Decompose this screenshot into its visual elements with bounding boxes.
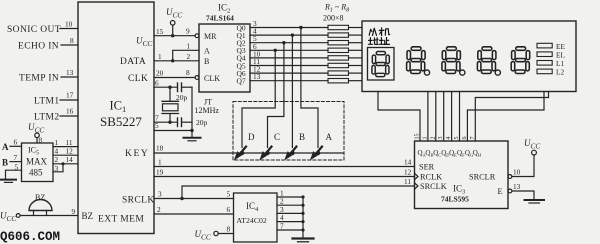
svg-text:18: 18 xyxy=(156,144,164,153)
svg-text:2: 2 xyxy=(157,205,161,214)
svg-text:Q7: Q7 xyxy=(237,77,246,86)
svg-text:12: 12 xyxy=(404,168,412,177)
wire DATA to IC2 A and B xyxy=(154,42,199,63)
IC U1 main controller IC1 SB5227 xyxy=(78,2,154,234)
svg-text:10: 10 xyxy=(65,20,73,29)
svg-text:9: 9 xyxy=(72,207,76,216)
digit 3 xyxy=(477,47,496,74)
svg-text:L2: L2 xyxy=(556,68,564,77)
wire display to IC3 pin2 xyxy=(435,92,437,142)
power Vcc for IC3 xyxy=(524,138,540,155)
pin label A pin 6 of MAX485 xyxy=(2,138,18,153)
svg-text:5: 5 xyxy=(454,137,460,140)
svg-text:UCC: UCC xyxy=(136,36,152,49)
transceiver IC5 MAX485 xyxy=(22,143,54,182)
wire display to IC3 pin15 xyxy=(378,92,420,142)
svg-text:19: 19 xyxy=(156,168,164,177)
wire capacitors common to ground with IC1 pin5 xyxy=(154,87,194,137)
svg-text:5: 5 xyxy=(155,121,159,130)
key C xyxy=(261,132,281,159)
svg-text:KEY: KEY xyxy=(125,149,149,159)
svg-text:IC4: IC4 xyxy=(246,201,259,213)
svg-text:A: A xyxy=(204,47,210,56)
eeprom IC4 AT24C02 xyxy=(234,193,278,242)
IC3 output labels QA-QH xyxy=(418,149,482,158)
buzzer BZ xyxy=(29,193,52,216)
svg-text:UCC: UCC xyxy=(195,229,211,242)
power Vcc for MAX485 xyxy=(28,122,44,145)
wire ECHO IN xyxy=(61,44,78,46)
wire Q0 branch to key A xyxy=(299,26,318,148)
decimal point 2 xyxy=(460,70,465,75)
svg-text:A: A xyxy=(2,142,9,152)
svg-text:20p: 20p xyxy=(196,118,208,127)
svg-text:2: 2 xyxy=(430,137,436,140)
pin label SRCLK pin 11 with clock wedge xyxy=(404,177,447,191)
wire IC4 pin2 to ground bus xyxy=(277,197,305,207)
pin label SONIC OUT pin 10 xyxy=(7,20,73,36)
indicator EE xyxy=(537,42,565,51)
display module box xyxy=(362,21,576,92)
IC3 top pin numbers 15 1 2 3 4 5 6 7 xyxy=(415,134,476,140)
pin label B pin 7 of MAX485 xyxy=(2,153,18,168)
svg-text:LTM1: LTM1 xyxy=(34,97,60,107)
pin label KEY pin 18 inside IC1 xyxy=(125,144,164,160)
shift register IC2 74LS164 xyxy=(195,3,250,93)
wire IC1 pin15 to IC2 MR pin 9 xyxy=(154,27,195,38)
wire IC1 pin1 to IC3 SER xyxy=(154,158,415,167)
svg-text:CLK: CLK xyxy=(128,74,148,84)
shift register IC3 74LS595 xyxy=(415,141,509,209)
digit 1 xyxy=(407,47,426,74)
svg-text:6: 6 xyxy=(14,138,18,147)
pin label SER pin 14 xyxy=(404,158,435,172)
svg-text:QC: QC xyxy=(433,149,441,158)
indicator EL xyxy=(537,50,565,59)
wire B to MAX485 xyxy=(10,161,22,163)
svg-text:7: 7 xyxy=(14,153,18,162)
svg-text:1: 1 xyxy=(158,158,162,167)
indicator L2 xyxy=(537,68,564,77)
decimal point 3 xyxy=(495,70,500,75)
svg-text:4: 4 xyxy=(446,137,452,140)
address digit box xyxy=(368,48,395,81)
svg-text:E: E xyxy=(498,187,503,196)
resistor array R1-R8 label xyxy=(323,3,349,23)
resistor R8 xyxy=(328,79,349,83)
svg-text:ECHO IN: ECHO IN xyxy=(18,42,59,52)
capacitor 20p lower xyxy=(178,118,208,127)
power Vcc above MR xyxy=(166,7,182,36)
svg-text:20: 20 xyxy=(156,69,164,78)
pin label TEMP IN pin 13 xyxy=(19,68,74,84)
wire LTM1 xyxy=(60,99,78,101)
svg-text:SB5227: SB5227 xyxy=(100,114,142,129)
address digit 8 xyxy=(372,51,389,76)
svg-text:485: 485 xyxy=(29,168,43,178)
ground IC4 xyxy=(293,239,314,242)
svg-text:7: 7 xyxy=(470,137,476,140)
svg-text:74LS595: 74LS595 xyxy=(441,195,469,204)
key D xyxy=(235,132,255,159)
svg-text:16: 16 xyxy=(66,107,74,116)
wire display to IC3 pin4 xyxy=(451,92,453,142)
svg-text:IC5: IC5 xyxy=(28,146,39,157)
svg-text:13: 13 xyxy=(253,72,261,81)
svg-text:D: D xyxy=(248,132,255,142)
svg-text:CLK: CLK xyxy=(204,74,220,83)
svg-text:8: 8 xyxy=(186,68,190,77)
svg-text:9: 9 xyxy=(186,27,190,36)
svg-text:SRCLK: SRCLK xyxy=(420,182,447,191)
wire MAX485 pin2 RE to IC1 pin 14 xyxy=(53,155,78,164)
svg-text:IC1: IC1 xyxy=(110,99,127,115)
label CongJi (slave) hand-drawn xyxy=(369,28,390,36)
svg-text:RCLK: RCLK xyxy=(420,173,442,182)
wire buzzer to IC1 pin 9 BZ xyxy=(20,207,78,216)
pin label SRCLK pin 3 inside IC1 xyxy=(122,190,162,206)
svg-text:UCC: UCC xyxy=(0,211,16,224)
svg-text:SRCLR: SRCLR xyxy=(469,173,496,182)
svg-text:DATA: DATA xyxy=(120,57,146,67)
crystal JT 12MHz xyxy=(162,87,219,122)
pin label LTM1 pin 17 xyxy=(34,91,74,107)
svg-text:R1 ~ R8: R1 ~ R8 xyxy=(324,3,349,14)
wire KEY line xyxy=(154,152,344,154)
wire LTM2 xyxy=(60,115,78,117)
svg-text:8: 8 xyxy=(70,36,74,45)
wire IC4 pin1 to ground bus xyxy=(277,189,305,199)
svg-text:7: 7 xyxy=(280,222,284,231)
wire IC1 pin6 to crystal xyxy=(154,79,177,89)
svg-text:B: B xyxy=(204,57,209,66)
svg-text:1: 1 xyxy=(158,52,162,61)
ground bus vertical IC4 xyxy=(302,197,304,238)
svg-text:15: 15 xyxy=(156,27,164,36)
wire SRCLK to IC4 pin5 and branch to IC3 SRCLK xyxy=(154,186,415,200)
svg-text:C: C xyxy=(274,132,280,142)
svg-text:74LS164: 74LS164 xyxy=(206,14,234,23)
wire SONIC OUT xyxy=(60,28,78,30)
key B xyxy=(285,132,305,159)
svg-text:1: 1 xyxy=(187,42,191,51)
pin label ECHO IN pin 8 xyxy=(18,36,74,52)
wire Q3 branch to key D xyxy=(242,49,277,148)
indicator L1 xyxy=(537,59,564,68)
wire Q3 pin6 to R4 xyxy=(250,42,362,51)
digit 4 xyxy=(511,47,530,74)
wire display to IC3 pin1 xyxy=(427,92,429,142)
svg-text:MAX: MAX xyxy=(26,157,48,167)
wire display to IC3 pin6 xyxy=(467,92,544,142)
svg-text:3: 3 xyxy=(158,190,162,199)
svg-text:15: 15 xyxy=(415,134,421,140)
wire Q1 pin4 to R2 xyxy=(250,27,362,36)
svg-text:A: A xyxy=(326,132,333,142)
wire Q7 pin13 to R8 xyxy=(250,72,362,81)
label DiZhi (address) hand-drawn xyxy=(368,38,389,45)
svg-text:LTM2: LTM2 xyxy=(34,113,60,123)
resistor R6 xyxy=(328,63,349,67)
svg-text:5: 5 xyxy=(227,190,231,199)
ground crystal xyxy=(184,138,201,141)
wire CLK to IC2 CLK pin 8 xyxy=(154,68,195,78)
svg-text:QB: QB xyxy=(425,149,433,158)
resistor R3 xyxy=(328,41,349,45)
power Vcc for IC4 pin 8 xyxy=(195,225,234,242)
power Vcc for buzzer xyxy=(0,211,20,224)
wire IC1 pin7 to crystal xyxy=(154,114,177,124)
pin label E pin 13 to ground xyxy=(498,182,535,200)
svg-text:QF: QF xyxy=(457,149,465,158)
wire EXT MEM to IC4 pin6 xyxy=(154,213,234,215)
svg-text:QE: QE xyxy=(449,149,457,158)
resistor R2 xyxy=(328,33,349,37)
svg-text:13: 13 xyxy=(66,68,74,77)
wire Q2 branch to key C xyxy=(268,41,286,148)
wire Q5 pin11 to R6 xyxy=(250,57,362,66)
resistor R1 xyxy=(328,25,349,29)
svg-text:8: 8 xyxy=(227,225,231,234)
svg-text:TEMP IN: TEMP IN xyxy=(19,74,59,84)
svg-text:BZ: BZ xyxy=(82,211,94,221)
pin label EXT MEM pin 2 inside IC1 xyxy=(98,205,161,225)
pin label CLK pin 20 inside IC1 xyxy=(128,69,164,85)
wire MAX485 pin3 DE tied to pin2 xyxy=(53,162,65,173)
svg-text:14: 14 xyxy=(66,155,74,164)
svg-text:UCC: UCC xyxy=(166,7,182,20)
ground MAX485 xyxy=(1,180,16,183)
svg-text:SONIC OUT: SONIC OUT xyxy=(7,25,61,35)
wire IC1 pin19 to IC3 RCLK xyxy=(154,168,415,177)
wire MAX485 pin 5 to ground xyxy=(6,163,22,180)
wire IC4 pin3 to ground bus xyxy=(277,205,305,215)
svg-text:6: 6 xyxy=(155,79,159,88)
pin label RCLK pin 12 with clock wedge xyxy=(404,168,442,182)
svg-text:14: 14 xyxy=(404,158,412,167)
pin label DATA pin 1 inside IC1 xyxy=(120,52,162,67)
svg-text:MR: MR xyxy=(204,32,217,41)
ground IC3 E xyxy=(525,200,545,203)
svg-text:2: 2 xyxy=(187,52,191,61)
svg-text:B: B xyxy=(2,158,8,168)
capacitor 20p upper xyxy=(176,83,192,102)
svg-text:12MHz: 12MHz xyxy=(195,106,220,115)
svg-text:B: B xyxy=(299,132,305,142)
svg-text:6: 6 xyxy=(462,137,468,140)
svg-text:13: 13 xyxy=(513,182,521,191)
wire display to IC3 pin7 xyxy=(475,92,548,142)
wire Q2 pin5 to R3 xyxy=(250,34,362,43)
svg-text:3: 3 xyxy=(438,137,444,140)
wire Q1 branch to key B xyxy=(291,33,294,147)
svg-text:17: 17 xyxy=(66,91,74,100)
digit 2 xyxy=(442,47,461,74)
wire Q6 pin12 to R7 xyxy=(250,65,362,74)
svg-text:SER: SER xyxy=(419,163,435,172)
pin label SRCLR pin 10 to Vcc xyxy=(469,155,534,182)
svg-text:1: 1 xyxy=(422,137,428,140)
wire display to IC3 pin3 xyxy=(443,92,445,142)
pin label LTM2 pin 16 xyxy=(34,107,74,123)
resistor R5 xyxy=(328,56,349,60)
wire A to MAX485 xyxy=(10,145,22,147)
wire MAX485 pin1 RO to IC1 pin 11 xyxy=(53,138,78,147)
wire TEMP IN xyxy=(61,76,78,78)
decimal point 1 xyxy=(424,70,429,75)
svg-text:AT24C02: AT24C02 xyxy=(237,216,267,225)
wire MAX485 pin4 DI to IC1 pin 12 xyxy=(53,147,78,156)
svg-text:Q606.COM: Q606.COM xyxy=(0,230,60,244)
resistor R7 xyxy=(328,71,349,75)
svg-text:10: 10 xyxy=(513,168,521,177)
wire display to IC3 pin5 xyxy=(459,92,461,142)
svg-text:200×8: 200×8 xyxy=(323,14,344,23)
svg-text:EXT MEM: EXT MEM xyxy=(98,215,144,225)
key A xyxy=(311,132,333,159)
svg-text:SRCLK: SRCLK xyxy=(122,196,155,206)
wire IC4 pin7 to ground bus xyxy=(277,222,305,232)
wire Q4 pin10 to R5 xyxy=(250,49,362,58)
dashed keypad box xyxy=(233,102,344,161)
pin label Ucc pin 15 inside IC1 xyxy=(136,27,164,48)
wire Q0 pin3 to R1 xyxy=(250,19,362,28)
svg-text:11: 11 xyxy=(404,177,411,186)
wire IC4 pin4 to ground bus xyxy=(277,213,305,223)
svg-text:UCC: UCC xyxy=(524,138,540,151)
svg-text:6: 6 xyxy=(227,205,231,214)
svg-text:QH: QH xyxy=(473,149,482,158)
resistor R4 xyxy=(328,48,349,52)
